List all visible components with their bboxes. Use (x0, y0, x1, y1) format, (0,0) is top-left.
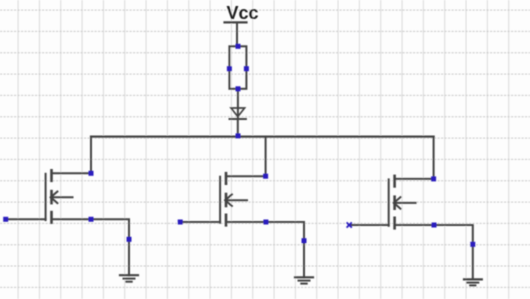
svg-text:Vcc: Vcc (227, 3, 259, 23)
